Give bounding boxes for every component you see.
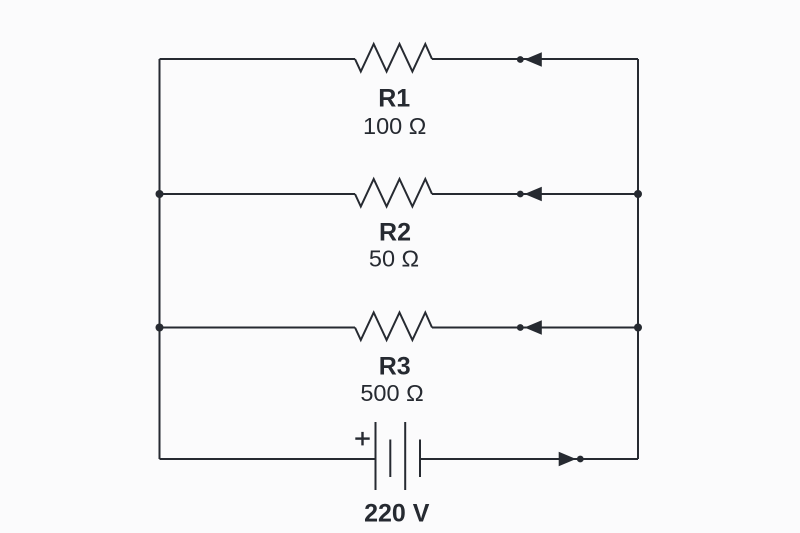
svg-text:100 Ω: 100 Ω [363, 113, 426, 139]
svg-text:R1: R1 [378, 85, 410, 113]
svg-text:R3: R3 [379, 353, 411, 381]
svg-text:500 Ω: 500 Ω [360, 380, 423, 406]
svg-text:50 Ω: 50 Ω [369, 246, 419, 272]
svg-text:R2: R2 [379, 219, 411, 247]
svg-text:220 V: 220 V [364, 500, 430, 528]
